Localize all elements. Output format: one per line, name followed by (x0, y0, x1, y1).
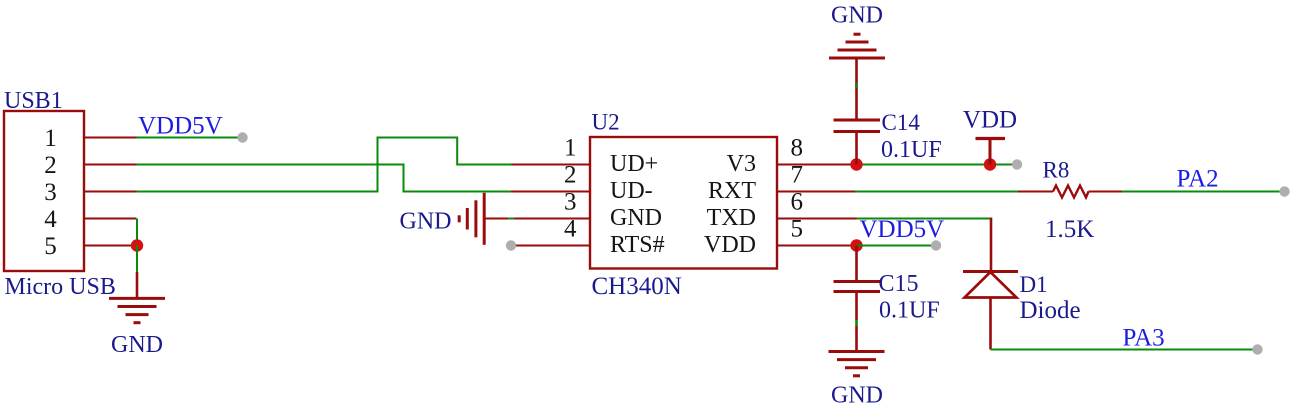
svg-text:PA2: PA2 (1177, 166, 1219, 193)
wire USB D- to U2 UD- (trace B) (137, 165, 512, 192)
capacitor C14 lower lead (855, 133, 858, 165)
wire RXT red to resistor (1018, 191, 1053, 193)
wire V3 net green (857, 164, 991, 166)
U2 pin 4 stub (RTS#) (516, 245, 590, 247)
USB1 pin 1 stub wire (84, 137, 137, 139)
diode D1 lower lead (989, 298, 992, 350)
wire GND down red (136, 272, 139, 298)
green tick on C14 lead (855, 83, 858, 88)
capacitor C15 upper lead (855, 246, 858, 281)
wire TXD down red (990, 218, 993, 272)
connector USB1 body (4, 111, 84, 271)
svg-text:2: 2 (564, 162, 577, 189)
wire PA3 green (991, 349, 1254, 351)
svg-text:GND: GND (610, 205, 662, 231)
svg-text:8: 8 (791, 135, 804, 162)
IC U2 body (590, 137, 777, 269)
svg-text:3: 3 (44, 179, 57, 206)
svg-text:VDD: VDD (704, 232, 756, 258)
capacitor C15 lower lead red 2 (855, 326, 858, 352)
svg-text:Diode: Diode (1020, 297, 1081, 324)
open endpoint VDD5V left (237, 132, 247, 142)
svg-text:C15: C15 (879, 271, 919, 297)
green tick on pin3 stub (508, 218, 514, 220)
wire VDD stub green (990, 164, 1012, 166)
junction dot USB GND (131, 239, 143, 251)
wire RXT net green left (855, 191, 1018, 193)
svg-text:D1: D1 (1020, 272, 1048, 297)
svg-text:UD-: UD- (610, 178, 653, 204)
svg-text:USB1: USB1 (4, 88, 63, 114)
USB1 pin 5 stub wire (84, 245, 137, 247)
svg-text:2: 2 (44, 152, 57, 179)
svg-text:6: 6 (791, 189, 804, 216)
wire VDD5V net green (137, 137, 239, 139)
svg-text:0.1UF: 0.1UF (881, 137, 942, 163)
U2 pin 7 stub (RXT) (777, 191, 855, 193)
open endpoint PA3 (1252, 344, 1262, 354)
svg-text:U2: U2 (592, 110, 620, 135)
svg-text:VDD5V: VDD5V (860, 216, 945, 243)
svg-text:RTS#: RTS# (610, 232, 665, 258)
U2 pin 3 stub (GND) (484, 218, 590, 220)
USB1 pin 3 stub wire (84, 191, 137, 193)
wire VDD5V right green (857, 245, 932, 247)
wire pin4 down green (136, 219, 138, 246)
svg-text:1.5K: 1.5K (1045, 216, 1094, 243)
capacitor C14 upper lead (855, 58, 858, 119)
ground symbol (top, inverted) (829, 34, 885, 58)
resistor R8 (1053, 186, 1089, 198)
open endpoint PA2 (1279, 186, 1289, 196)
svg-text:1: 1 (44, 125, 57, 152)
svg-text:CH340N: CH340N (592, 273, 682, 300)
svg-text:C14: C14 (882, 110, 921, 135)
svg-text:4: 4 (44, 206, 57, 233)
ground symbol (USB) (109, 298, 165, 322)
USB1 pin 4 stub wire (84, 218, 137, 220)
svg-text:GND: GND (400, 209, 452, 235)
capacitor C15 lower lead green part (855, 320, 858, 326)
capacitor C15 lower lead red (855, 293, 858, 320)
junction dot VDD5V/C15 (850, 239, 862, 251)
wire TXD net green (857, 218, 992, 220)
svg-text:VDD5V: VDD5V (138, 113, 223, 140)
U2 pin 8 stub (V3) (777, 164, 851, 166)
capacitor C15 plates (834, 282, 881, 292)
svg-text:TXD: TXD (707, 205, 756, 231)
ground symbol (C15) (829, 352, 885, 376)
svg-text:GND: GND (831, 383, 883, 409)
svg-text:4: 4 (564, 216, 577, 243)
junction dot VDD (984, 158, 996, 170)
svg-text:RXT: RXT (708, 178, 756, 204)
svg-text:PA3: PA3 (1123, 325, 1165, 352)
svg-text:0.1UF: 0.1UF (879, 298, 940, 324)
diode D1 triangle (965, 272, 1017, 298)
wire resistor to PA2 red (1089, 191, 1123, 193)
svg-text:GND: GND (111, 332, 163, 358)
open endpoint RTS# (506, 240, 516, 250)
USB1 pin 2 stub wire (84, 164, 137, 166)
svg-text:VDD: VDD (963, 107, 1017, 134)
U2 pin 6 stub (TXD) (777, 218, 857, 220)
wire GND down green (136, 246, 138, 273)
open endpoint VDD5V right (931, 240, 941, 250)
wire USB D+ to U2 UD+ (trace A) (137, 138, 512, 192)
power symbol VDD (976, 139, 1006, 165)
svg-text:UD+: UD+ (610, 151, 658, 177)
svg-text:3: 3 (564, 189, 577, 216)
U2 pin 5 stub (VDD) (777, 245, 851, 247)
wire PA2 green (1122, 191, 1280, 193)
svg-text:1: 1 (564, 135, 577, 162)
U2 pin 2 stub (511, 191, 590, 193)
U2 pin 1 stub (512, 164, 591, 166)
ground symbol (middle, sideways) (459, 193, 484, 245)
junction dot V3/C14 (850, 158, 862, 170)
open endpoint V3 net (1012, 159, 1022, 169)
capacitor C14 plates (834, 120, 881, 132)
svg-text:V3: V3 (727, 151, 756, 177)
diode D1 cathode bar (963, 270, 1018, 273)
svg-text:Micro USB: Micro USB (5, 274, 116, 300)
svg-text:5: 5 (44, 233, 57, 260)
svg-text:R8: R8 (1043, 158, 1070, 183)
svg-text:5: 5 (791, 216, 804, 243)
svg-text:7: 7 (791, 162, 804, 189)
svg-text:GND: GND (831, 3, 883, 29)
